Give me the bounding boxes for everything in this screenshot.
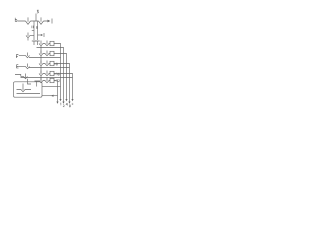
transistor T4 (26, 64, 30, 69)
output label o3 (66, 103, 68, 106)
transistor Q2b (45, 51, 49, 56)
wire row1 to bus (54, 44, 61, 100)
output label o1 (59, 103, 62, 106)
wire vertical right cap branch (37, 21, 39, 40)
rail row4 (21, 77, 73, 79)
transistor T3 (26, 53, 30, 58)
transistor Q1b (45, 41, 49, 46)
wire box output upper (42, 85, 61, 87)
wire row4 (43, 73, 50, 75)
transistor T6 inside box (21, 84, 25, 92)
terminal tick (51, 19, 53, 24)
transistor Q1a (39, 41, 43, 46)
value label +8 (54, 63, 57, 65)
rail row3 (29, 67, 70, 69)
transistor Q5b (45, 78, 49, 83)
wire T2b to branch (30, 35, 34, 37)
arrowhead bus b2 (65, 99, 67, 101)
wire inside box lower (17, 93, 41, 95)
wire row1 (43, 43, 50, 45)
wire row4 to bus (54, 74, 73, 100)
transistor T1 (26, 17, 31, 24)
output label o4 (69, 103, 73, 107)
common bus vertical (57, 81, 59, 102)
arrowhead bus common (56, 102, 58, 104)
arrowhead side tap (41, 34, 43, 36)
wire inside box upper (17, 89, 32, 91)
transistor Q2a (39, 51, 43, 56)
value label +32 (54, 80, 59, 82)
arrowhead bus b3 (68, 102, 70, 104)
chain vertical mid (40, 46, 42, 81)
arrowhead rail bus (62, 102, 64, 104)
tick on branch (32, 30, 34, 32)
transistor T5 (24, 74, 28, 79)
node label b (left input) (15, 18, 17, 22)
node label E (17, 65, 19, 68)
box flip-flop (14, 82, 43, 97)
terminal tick side (43, 33, 45, 37)
wire input E (18, 66, 26, 68)
load box row5 (50, 78, 54, 82)
load box row4 (50, 71, 54, 75)
wire top rail (18, 20, 48, 22)
transistor T2b (26, 33, 30, 41)
transistor Q3b (45, 61, 49, 66)
wire row5 (43, 80, 50, 82)
ground bar right (35, 41, 39, 45)
arrowhead bus b1 (59, 99, 61, 101)
ref numeral 14 (36, 26, 37, 29)
node label dash (15, 75, 21, 77)
arrow output right (48, 20, 51, 23)
wire input third (21, 76, 24, 78)
load box row1 (50, 41, 54, 45)
wire side tap (38, 34, 41, 36)
terminal T inside box (35, 81, 40, 87)
node label F (16, 55, 18, 58)
rail row1 (37, 48, 64, 102)
node label 3 (37, 10, 39, 13)
transistor T2 (39, 17, 44, 24)
wire chain into box (28, 79, 32, 84)
wire input F (19, 55, 26, 57)
arrowhead bus b4 (71, 99, 73, 101)
transistor Q4a (39, 71, 43, 76)
wire row3 to bus (54, 64, 70, 102)
transistor Q3a (39, 61, 43, 66)
rail row2 (29, 57, 61, 59)
transistor Q4b (45, 71, 49, 76)
wire row2 to bus (54, 54, 67, 100)
arrowhead on lower output (51, 95, 54, 97)
wire box output lower (42, 95, 58, 97)
value label +16 (54, 73, 59, 76)
wire row3 (43, 63, 50, 65)
ground bar left (32, 41, 36, 45)
wire stub node 3 (35, 14, 37, 22)
wire row2 (43, 53, 50, 55)
load box row3 (50, 61, 54, 65)
wire row5 to common (54, 80, 58, 82)
ref numeral 11 (32, 26, 33, 29)
output label o2 (63, 105, 65, 107)
wire vertical left cap branch (33, 21, 35, 40)
transistor Q5a (39, 78, 43, 83)
load box row2 (50, 51, 54, 55)
